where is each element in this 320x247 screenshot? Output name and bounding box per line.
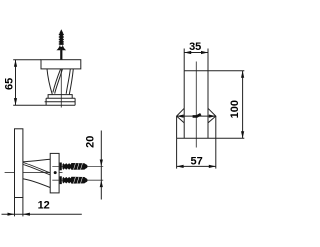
body left outer edge	[47, 69, 52, 95]
svg-text:100: 100	[229, 100, 241, 118]
wide plate right edge	[215, 116, 217, 138]
wall plate (12 thick)	[15, 129, 23, 198]
upper wall plug ribs	[74, 163, 83, 169]
centerline (vertical axis, side view)	[60, 55, 62, 108]
dimension 35 extension lines	[183, 49, 185, 71]
horizontal axis centerline	[5, 172, 63, 174]
left chamfer diagonals	[177, 108, 185, 123]
svg-text:57: 57	[190, 155, 202, 167]
lower screw + wall plug	[60, 176, 88, 184]
mid arrow line across plate	[177, 115, 216, 117]
dimension 65 extension line top	[13, 59, 41, 61]
body top edge	[23, 159, 50, 162]
dimension 65 line	[15, 60, 17, 105]
svg-text:35: 35	[189, 41, 201, 53]
centerline (vertical, front view)	[195, 62, 197, 148]
wide plate bottom edge + extension to 100 dim	[177, 137, 245, 139]
column left edge	[183, 71, 185, 139]
wide plate left edge	[176, 116, 178, 138]
center dot on flange	[54, 171, 57, 174]
base upper flange	[48, 95, 72, 99]
dimension 57 line	[177, 165, 216, 167]
center thick dash (screw slot)	[193, 114, 201, 116]
body bottom edge	[23, 179, 50, 188]
dimension 12 line	[2, 213, 82, 215]
flange plate (front plate, side view)	[50, 153, 59, 193]
body right inner edge	[66, 69, 70, 94]
dimension 35 arrows	[184, 51, 191, 54]
body twist line 1	[53, 69, 61, 93]
dimension 35 line	[184, 52, 208, 54]
right chamfer diagonals	[208, 108, 216, 123]
dimension 100 arrows	[241, 71, 244, 78]
dimension 57 arrows	[177, 165, 184, 168]
lower wall plug ribs	[74, 177, 83, 183]
screw (mounting screw, tip up)	[56, 29, 66, 61]
body twist line a	[23, 163, 50, 173]
dimension 20 arrows (outside)	[100, 160, 103, 167]
dimension 12 extension lines	[14, 198, 16, 217]
svg-text:20: 20	[85, 136, 97, 148]
dimension 65 arrow down	[14, 98, 17, 105]
body twist line 2	[55, 69, 63, 94]
dimension 57 extension lines	[176, 138, 178, 168]
body right outer edge	[69, 69, 73, 95]
dimension 100 line	[242, 71, 244, 139]
top plate (side view of 57 flange)	[41, 60, 81, 69]
dimension 65 arrow up	[14, 60, 17, 67]
base mid line	[45, 101, 76, 103]
upper screw + wall plug	[60, 163, 88, 171]
dimension 20 line	[100, 131, 102, 200]
column right edge	[207, 71, 209, 139]
column top edge + extension to 100 dim	[184, 70, 244, 72]
lower screw centerline	[52, 179, 103, 181]
base bottom edge + extension line for 65	[13, 104, 75, 106]
base lower flange	[46, 98, 75, 105]
upper screw centerline	[52, 165, 103, 167]
body twist line b	[23, 164, 50, 175]
svg-text:65: 65	[4, 78, 16, 90]
dimension 12 arrows (outside)	[8, 213, 15, 216]
svg-text:12: 12	[38, 199, 50, 211]
